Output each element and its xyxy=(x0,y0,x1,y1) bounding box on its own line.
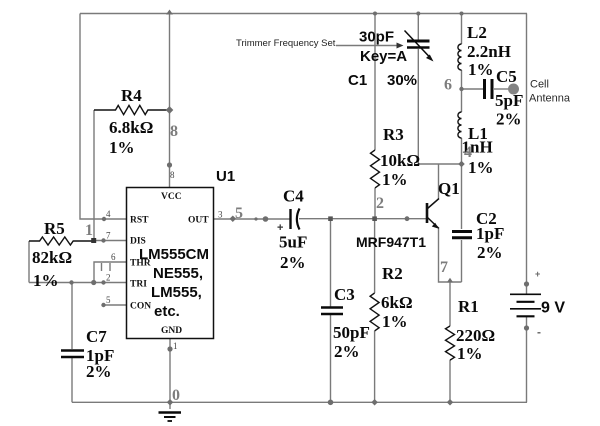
svg-text:5uF: 5uF xyxy=(279,233,307,252)
svg-text:2%: 2% xyxy=(86,362,112,381)
svg-text:Antenna: Antenna xyxy=(529,93,571,105)
svg-text:1%: 1% xyxy=(109,138,135,157)
svg-text:GND: GND xyxy=(161,326,182,336)
svg-text:10kΩ: 10kΩ xyxy=(380,151,420,170)
svg-text:50pF: 50pF xyxy=(333,323,370,342)
svg-text:5pF: 5pF xyxy=(495,91,523,110)
svg-text:THR: THR xyxy=(130,259,151,269)
svg-text:4: 4 xyxy=(106,209,111,219)
svg-text:TRI: TRI xyxy=(130,280,147,290)
svg-text:30pF: 30pF xyxy=(359,29,394,46)
svg-text:5: 5 xyxy=(106,295,111,305)
svg-text:2%: 2% xyxy=(280,253,306,272)
svg-text:6: 6 xyxy=(111,252,116,262)
svg-text:OUT: OUT xyxy=(188,216,209,226)
svg-text:+: + xyxy=(535,269,540,279)
svg-text:CON: CON xyxy=(130,302,151,312)
svg-text:C7: C7 xyxy=(86,327,107,346)
svg-text:NE555,: NE555, xyxy=(153,265,203,282)
svg-text:220Ω: 220Ω xyxy=(456,326,495,345)
svg-text:Q1: Q1 xyxy=(438,179,460,198)
svg-text:6kΩ: 6kΩ xyxy=(381,293,413,312)
svg-text:8: 8 xyxy=(170,123,178,140)
svg-text:6: 6 xyxy=(444,77,452,94)
svg-text:R1: R1 xyxy=(458,297,479,316)
svg-text:MRF947T1: MRF947T1 xyxy=(356,234,426,250)
svg-text:1%: 1% xyxy=(468,60,494,79)
svg-text:1%: 1% xyxy=(457,344,483,363)
svg-text:2.2nH: 2.2nH xyxy=(467,42,511,61)
svg-text:VCC: VCC xyxy=(161,192,182,202)
svg-text:C5: C5 xyxy=(496,67,517,86)
svg-text:LM555,: LM555, xyxy=(151,284,202,301)
svg-text:2%: 2% xyxy=(334,342,360,361)
svg-text:R5: R5 xyxy=(44,219,65,238)
svg-text:etc.: etc. xyxy=(154,303,180,320)
svg-text:6.8kΩ: 6.8kΩ xyxy=(109,118,153,137)
svg-text:Key=A: Key=A xyxy=(360,48,407,65)
svg-text:82kΩ: 82kΩ xyxy=(32,248,72,267)
svg-text:DIS: DIS xyxy=(130,237,146,247)
svg-text:Cell: Cell xyxy=(530,79,549,91)
svg-text:1pF: 1pF xyxy=(476,224,504,243)
svg-text:30%: 30% xyxy=(387,72,417,89)
svg-text:+: + xyxy=(277,222,283,234)
svg-text:1: 1 xyxy=(85,222,93,239)
svg-text:5: 5 xyxy=(235,205,243,222)
svg-text:RST: RST xyxy=(130,216,149,226)
svg-text:-: - xyxy=(537,325,541,339)
svg-text:C4: C4 xyxy=(283,187,304,206)
svg-text:3: 3 xyxy=(218,210,223,220)
svg-text:C3: C3 xyxy=(334,285,355,304)
svg-text:7: 7 xyxy=(440,259,448,276)
svg-text:8: 8 xyxy=(170,170,175,180)
svg-text:0: 0 xyxy=(172,387,180,404)
svg-text:L2: L2 xyxy=(467,23,487,42)
svg-text:1%: 1% xyxy=(382,312,408,331)
svg-text:R2: R2 xyxy=(382,264,403,283)
svg-text:2: 2 xyxy=(106,273,111,283)
svg-text:1%: 1% xyxy=(33,271,59,290)
svg-text:7: 7 xyxy=(106,231,111,241)
svg-text:U1: U1 xyxy=(216,168,235,185)
svg-text:2%: 2% xyxy=(477,243,503,262)
svg-text:R3: R3 xyxy=(383,125,404,144)
svg-text:R4: R4 xyxy=(121,86,142,105)
svg-text:Trimmer Frequency Set: Trimmer Frequency Set xyxy=(236,38,336,49)
svg-text:C1: C1 xyxy=(348,72,367,89)
svg-text:4: 4 xyxy=(464,144,472,161)
svg-text:1%: 1% xyxy=(382,170,408,189)
svg-text:2: 2 xyxy=(376,195,384,212)
svg-text:2%: 2% xyxy=(496,110,522,129)
svg-text:1: 1 xyxy=(173,341,178,351)
svg-text:9 V: 9 V xyxy=(541,300,565,317)
